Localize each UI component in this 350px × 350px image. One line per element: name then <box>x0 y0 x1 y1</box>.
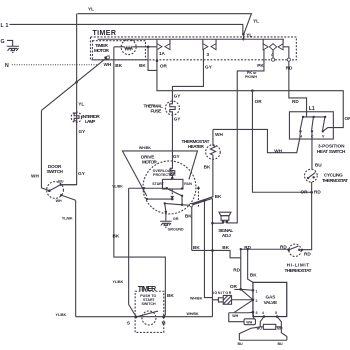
wire BK motor diagonal out <box>193 198 213 204</box>
svg-text:5: 5 <box>275 311 277 315</box>
svg-text:2: 2 <box>255 299 257 303</box>
wire YL/BK feed into motor <box>129 187 167 189</box>
cycling thermostat <box>304 169 317 182</box>
wire junction to terminal 2 <box>241 289 253 299</box>
svg-text:WH/BK: WH/BK <box>139 146 152 150</box>
svg-text:BK: BK <box>185 213 192 218</box>
svg-text:ADJ: ADJ <box>222 233 231 238</box>
svg-text:OR: OR <box>300 189 308 194</box>
wire WH/BK motor to M-rail <box>204 201 212 298</box>
contact 4 diamond stub and terminal <box>272 50 274 58</box>
svg-text:YL: YL <box>88 6 94 11</box>
wire BU bottom rail <box>239 327 287 340</box>
thermostat heater <box>206 145 221 160</box>
svg-text:THERMOSTAT: THERMOSTAT <box>322 178 348 183</box>
svg-text:WH: WH <box>246 321 252 325</box>
wire BK drop to gas valve corner <box>248 249 253 282</box>
bus BK horizontal <box>192 249 289 258</box>
svg-text:OR: OR <box>344 116 350 121</box>
gas valve terminals <box>252 289 255 292</box>
svg-text:BU: BU <box>237 342 243 346</box>
svg-text:GY: GY <box>173 154 181 159</box>
svg-text:L1: L1 <box>0 23 8 29</box>
wire GR to ground <box>165 203 166 220</box>
junction L1/YL <box>242 33 245 36</box>
wire YL top feed <box>77 14 251 34</box>
motor case terminal <box>189 203 192 206</box>
wire WH diagonal to terminal 2 <box>234 300 253 312</box>
wire buzzer left to BK <box>212 222 223 223</box>
svg-text:TIMER: TIMER <box>92 30 116 37</box>
wire WH diagonal with arrow to timer motor <box>41 58 106 111</box>
gas valve coil <box>260 317 264 327</box>
wire OR from 1A to heat switch <box>157 61 343 128</box>
svg-text:PROTECTOR: PROTECTOR <box>153 173 176 177</box>
svg-text:G: G <box>0 39 4 45</box>
hi-limit thermostat <box>289 244 301 256</box>
wire buzzer right to PK <box>226 222 228 223</box>
thermal fuse <box>165 101 179 115</box>
svg-text:PK/WH: PK/WH <box>245 75 257 79</box>
wire PK timer to buzzer <box>227 50 264 223</box>
bus left riser <box>191 206 193 250</box>
svg-text:YL/BK: YL/BK <box>62 217 73 221</box>
timer motor coil <box>121 40 136 55</box>
svg-text:3: 3 <box>206 52 209 57</box>
svg-text:RD: RD <box>292 99 299 104</box>
contact 1A <box>157 39 170 43</box>
timer motor inner dashed box <box>92 41 145 60</box>
svg-text:GY: GY <box>78 171 86 176</box>
svg-text:TIMER: TIMER <box>138 286 157 293</box>
svg-text:GY: GY <box>174 117 182 122</box>
svg-text:HI-LIMIT: HI-LIMIT <box>287 263 310 268</box>
wire YL/BK door to start switch <box>75 200 77 316</box>
svg-text:WH: WH <box>215 132 223 137</box>
wire RD drop to gas valve <box>240 249 242 289</box>
node 1A bus tick <box>282 39 284 44</box>
svg-text:BK: BK <box>193 245 200 250</box>
svg-text:V: V <box>322 134 325 138</box>
wire N neutral dotted <box>12 64 98 66</box>
svg-text:GROUND: GROUND <box>168 227 184 231</box>
svg-text:WH: WH <box>103 62 111 67</box>
interior lamp <box>71 112 81 122</box>
svg-text:VALVE: VALVE <box>264 300 278 305</box>
svg-text:BU: BU <box>277 327 283 331</box>
wire BU heat switch to cycling <box>311 131 313 169</box>
wire RD contact4 to heat switch L1 <box>289 61 307 111</box>
svg-text:3: 3 <box>255 311 257 315</box>
gas valve box <box>253 282 287 316</box>
junction coil lead <box>147 46 150 49</box>
svg-text:RD: RD <box>304 252 311 257</box>
svg-text:BK: BK <box>204 164 211 169</box>
motor windings box <box>162 179 183 189</box>
timer motor WH terminal <box>106 56 109 59</box>
wire BK heater to motor <box>191 159 213 204</box>
WH connector box <box>244 319 255 325</box>
svg-text:SWITCH: SWITCH <box>141 302 156 306</box>
svg-text:SWITCH: SWITCH <box>46 169 63 174</box>
svg-text:BK: BK <box>167 293 174 298</box>
wire junction to terminal 1 <box>241 288 253 291</box>
svg-text:BK: BK <box>215 194 222 199</box>
wire BK jog below 1A <box>148 47 157 71</box>
svg-text:OR: OR <box>230 284 238 289</box>
wire YL/BK motor to S <box>129 188 136 316</box>
timer bus <box>97 38 283 40</box>
junction bus/BK vertical <box>211 249 214 252</box>
svg-text:WH: WH <box>274 148 282 153</box>
drive motor dashed circle <box>143 161 196 214</box>
svg-text:4: 4 <box>262 311 264 315</box>
svg-text:BK: BK <box>139 63 146 68</box>
wire BK motor down to M terminal <box>211 198 213 316</box>
svg-text:RD: RD <box>314 189 321 194</box>
svg-text:GY: GY <box>205 65 213 70</box>
svg-text:MOTOR: MOTOR <box>142 160 158 165</box>
svg-text:PK or: PK or <box>247 71 257 75</box>
svg-text:WH: WH <box>31 174 39 179</box>
overload protector <box>170 166 175 178</box>
svg-text:1: 1 <box>255 290 257 294</box>
wire ignitor to gas valve 2 <box>232 299 253 301</box>
svg-text:WH: WH <box>56 199 62 203</box>
svg-text:1A: 1A <box>159 51 166 56</box>
svg-text:WH/BK: WH/BK <box>190 297 203 301</box>
centrifugal switch <box>167 188 182 195</box>
svg-text:BU: BU <box>277 342 283 346</box>
wire OR to gas valve <box>234 288 240 290</box>
svg-text:WH/BK: WH/BK <box>186 312 199 316</box>
wire RD cycling to hi-limit <box>302 182 312 250</box>
svg-text:FUSE: FUSE <box>150 109 161 114</box>
wire BK timer motor to M <box>114 47 165 317</box>
svg-text:OR: OR <box>255 99 263 104</box>
contact 4 RD lead <box>283 47 289 58</box>
junction OR drop <box>251 89 254 92</box>
contact 3 <box>203 39 216 43</box>
svg-text:RD: RD <box>233 268 240 273</box>
buzzer signal <box>219 212 231 216</box>
svg-text:BK: BK <box>250 273 257 278</box>
svg-text:THERMOSTAT: THERMOSTAT <box>284 268 311 273</box>
svg-text:IGNITOR: IGNITOR <box>213 291 232 295</box>
svg-text:CYCLING: CYCLING <box>324 172 343 177</box>
heat switch box <box>289 112 333 139</box>
wire V contact to OR <box>323 128 334 132</box>
contact 4 <box>263 39 283 44</box>
svg-text:RD: RD <box>286 66 293 71</box>
svg-text:RD: RD <box>280 244 287 249</box>
rail S/M bottom <box>76 316 213 318</box>
wire OR timer to cycling <box>252 91 311 193</box>
svg-text:BU: BU <box>315 162 322 167</box>
svg-text:BK: BK <box>115 63 122 68</box>
wire YL lamp drop <box>61 14 77 185</box>
wire L1 line <box>9 24 242 34</box>
svg-text:N: N <box>5 63 9 69</box>
drive motor trapezoid <box>122 151 197 196</box>
svg-text:S: S <box>127 320 130 325</box>
timer outer dashed box <box>90 37 296 60</box>
junction diagonal/lamp wire <box>75 81 78 84</box>
svg-text:YL: YL <box>253 18 259 23</box>
svg-text:YL: YL <box>78 102 84 107</box>
svg-text:PK: PK <box>257 63 264 68</box>
svg-text:LAMP: LAMP <box>85 119 96 124</box>
svg-text:START: START <box>152 182 165 186</box>
wire WH heater to heat switch <box>213 129 301 152</box>
svg-text:WH: WH <box>232 314 238 318</box>
svg-text:HEATER: HEATER <box>188 144 205 149</box>
svg-text:OR: OR <box>160 63 168 68</box>
wire WH to terminal 3 <box>229 311 253 314</box>
wire GY contact 3 to thermal fuse <box>172 50 203 101</box>
svg-text:MOTOR: MOTOR <box>94 48 110 53</box>
svg-text:BU: BU <box>58 180 64 184</box>
svg-text:3-POSITION: 3-POSITION <box>318 143 345 148</box>
svg-text:HEAT SWITCH: HEAT SWITCH <box>317 149 346 154</box>
svg-text:BK: BK <box>112 234 119 239</box>
svg-text:GY: GY <box>174 94 182 99</box>
svg-text:GR: GR <box>173 217 179 221</box>
wire junction drop to bus <box>242 34 244 39</box>
svg-text:YL/BK: YL/BK <box>55 313 66 317</box>
svg-text:GY: GY <box>78 129 86 134</box>
svg-text:RUN: RUN <box>184 182 192 186</box>
svg-text:YL/BK: YL/BK <box>112 280 123 284</box>
svg-text:M: M <box>162 320 166 325</box>
heat switch internals <box>303 112 325 117</box>
svg-text:BK: BK <box>222 245 229 250</box>
